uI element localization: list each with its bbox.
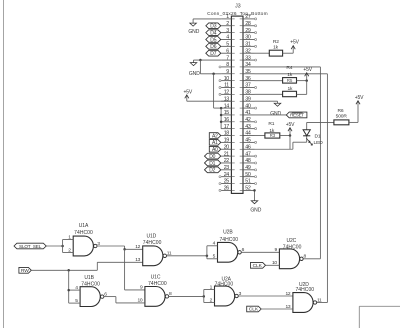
svg-text:16: 16 <box>224 117 230 123</box>
junction R1 +5V <box>289 134 292 137</box>
svg-text:12: 12 <box>285 291 290 297</box>
svg-text:21: 21 <box>224 151 230 157</box>
nand gate U1D <box>143 246 163 266</box>
svg-text:D6: D6 <box>210 44 216 50</box>
svg-text:74HC00: 74HC00 <box>219 237 238 243</box>
svg-text:44: 44 <box>245 131 251 137</box>
svg-text:15: 15 <box>224 110 230 116</box>
svg-text:A1: A1 <box>212 140 218 146</box>
junction U1B pin4 <box>67 289 70 292</box>
svg-text:+5V: +5V <box>290 39 299 45</box>
wire pin52 down <box>254 190 256 200</box>
wire U1A output <box>97 245 125 247</box>
wire U2C out <box>303 258 320 260</box>
svg-text:A2: A2 <box>212 133 218 139</box>
svg-text:CLK: CLK <box>249 307 259 313</box>
svg-text:27: 27 <box>245 14 251 20</box>
ground GND1 top-left <box>192 19 194 23</box>
svg-text:+5V: +5V <box>286 122 295 128</box>
svg-text:24: 24 <box>224 172 230 178</box>
svg-text:LED: LED <box>314 140 324 146</box>
svg-text:U1A: U1A <box>79 223 89 229</box>
junction U1A input <box>61 245 64 248</box>
svg-text:74HC00: 74HC00 <box>74 230 93 236</box>
unconnected pin markers <box>219 66 221 68</box>
wire down to row46 <box>289 136 291 150</box>
svg-text:1k: 1k <box>273 44 279 50</box>
wire vertical to row38 <box>306 81 308 95</box>
svg-text:18: 18 <box>224 131 230 137</box>
junction row16 <box>220 121 223 124</box>
net label SLOT_SEL <box>14 243 46 249</box>
svg-text:43: 43 <box>245 124 251 130</box>
svg-text:R2: R2 <box>273 39 279 45</box>
wire +5V to pin13 <box>187 100 232 102</box>
svg-text:49: 49 <box>245 165 251 171</box>
nand gate U2A <box>215 286 235 306</box>
svg-text:74HC00: 74HC00 <box>283 244 302 250</box>
svg-text:A0: A0 <box>212 147 218 153</box>
power +5V mid <box>306 73 308 81</box>
svg-text:37: 37 <box>245 83 251 89</box>
svg-text:48: 48 <box>245 158 251 164</box>
svg-text:5: 5 <box>226 42 229 48</box>
wire U2A out <box>238 295 293 297</box>
svg-text:D2: D2 <box>209 168 215 174</box>
wire RW down to U1B <box>68 270 70 303</box>
net label RESET <box>286 112 307 118</box>
wire row14 <box>214 107 222 109</box>
nand gate U1C <box>145 287 165 307</box>
svg-text:33: 33 <box>245 55 251 61</box>
svg-text:23: 23 <box>224 165 230 171</box>
net label D1 <box>205 160 221 166</box>
wire U1C out <box>169 295 204 297</box>
svg-text:U1C: U1C <box>151 275 161 281</box>
connector J3 body <box>231 16 243 193</box>
title block corner <box>359 305 400 307</box>
ground GND2 left <box>193 60 195 63</box>
connector J3 pin stubs <box>221 18 231 20</box>
junction RW <box>67 269 70 272</box>
svg-text:U1D: U1D <box>146 233 156 239</box>
svg-text:D1: D1 <box>209 161 215 167</box>
resistor R6 <box>334 120 349 125</box>
svg-text:RESET: RESET <box>290 113 304 118</box>
wire to U1D pin12 <box>125 248 143 250</box>
wire vertical gnd b <box>213 74 215 108</box>
resistor R2 <box>269 50 282 56</box>
net label D0 <box>205 153 221 159</box>
power +5V at R6 <box>357 101 359 123</box>
wire U1D out <box>167 255 207 257</box>
resistor row38 <box>283 91 297 96</box>
svg-text:74HC00: 74HC00 <box>81 282 100 288</box>
svg-text:D0: D0 <box>209 154 215 160</box>
svg-text:19: 19 <box>224 138 230 144</box>
svg-text:J3: J3 <box>235 4 241 10</box>
nand gate U2D <box>293 293 313 313</box>
svg-text:8: 8 <box>226 62 229 68</box>
svg-text:R5: R5 <box>287 78 293 83</box>
net label D4 <box>206 30 221 36</box>
svg-text:9: 9 <box>226 69 229 75</box>
net label A1 <box>209 140 221 146</box>
svg-text:52: 52 <box>245 186 251 192</box>
svg-text:22: 22 <box>224 158 230 164</box>
net label D5 <box>206 37 221 43</box>
schematic frame left border <box>3 0 5 328</box>
connector J3 pin notches <box>231 18 234 20</box>
power +5V at R2 <box>292 46 294 54</box>
wire U2D out <box>317 302 328 304</box>
junction row7 <box>199 59 202 62</box>
svg-text:39: 39 <box>245 96 251 102</box>
svg-text:40: 40 <box>245 103 251 109</box>
svg-text:47: 47 <box>245 151 251 157</box>
svg-text:R6: R6 <box>338 108 344 114</box>
svg-text:GND: GND <box>270 111 281 117</box>
net label D6 <box>206 43 221 49</box>
wire RW line <box>31 269 97 271</box>
net label D2 <box>205 167 221 173</box>
ground GND4 right <box>277 101 279 103</box>
svg-text:14: 14 <box>224 103 230 109</box>
wire row38 right <box>297 93 307 95</box>
wire R2 right <box>283 52 294 54</box>
wire U2A input split <box>203 290 205 303</box>
svg-text:11: 11 <box>224 83 229 89</box>
nand gate U2C <box>279 249 299 269</box>
svg-text:D7: D7 <box>210 51 216 57</box>
svg-text:4: 4 <box>226 35 229 41</box>
wire CLK2 to U2D <box>261 308 293 310</box>
wire pin38 to resistor <box>255 93 283 95</box>
wire pin39 gnd <box>255 100 278 102</box>
nand gate U1B <box>80 287 100 307</box>
net label CLK1 <box>251 262 266 268</box>
junction row14 <box>220 107 223 110</box>
svg-text:U2B: U2B <box>223 229 233 235</box>
svg-text:SLOT_SEL: SLOT_SEL <box>19 244 42 249</box>
power +5V at R1 <box>289 128 291 136</box>
net label CLK2 <box>247 306 262 312</box>
junction U2A input <box>203 295 206 298</box>
wire R5 right <box>297 80 307 82</box>
wire pin32 to R2 <box>255 52 270 54</box>
wire pin46 <box>255 148 293 150</box>
wire RW up to U1D pin13 <box>96 262 98 270</box>
wire R6 right <box>349 121 358 123</box>
wire U1A input split <box>62 240 64 253</box>
svg-text:74HC00: 74HC00 <box>295 287 314 293</box>
wire pin41 reset <box>255 114 287 116</box>
wire vertical gnd c <box>220 108 222 129</box>
junction U2B input <box>206 255 209 257</box>
svg-text:51: 51 <box>245 179 251 185</box>
svg-text:12: 12 <box>135 244 140 250</box>
svg-text:D4: D4 <box>210 30 216 36</box>
wire U1B out step <box>104 296 116 298</box>
svg-text:500R: 500R <box>336 114 348 120</box>
svg-text:1k: 1k <box>287 72 293 78</box>
svg-text:GND: GND <box>188 29 199 35</box>
svg-text:R3: R3 <box>270 133 276 138</box>
power +5V left <box>186 95 188 101</box>
wire CLK1 to U2C <box>266 264 280 266</box>
svg-text:RW: RW <box>21 268 29 274</box>
svg-text:R1: R1 <box>268 121 274 127</box>
svg-text:45: 45 <box>245 138 251 144</box>
junction +5V mid <box>305 79 308 82</box>
svg-text:6: 6 <box>226 48 229 54</box>
svg-text:12: 12 <box>224 90 230 96</box>
svg-text:29: 29 <box>245 28 251 34</box>
wire row34 net <box>255 66 321 68</box>
svg-text:+5V: +5V <box>355 95 364 101</box>
net label RW <box>19 267 31 273</box>
net label A2 <box>209 133 221 139</box>
svg-text:GND: GND <box>250 208 261 214</box>
svg-text:50: 50 <box>245 172 251 178</box>
net label D3 <box>206 23 221 29</box>
svg-text:7: 7 <box>226 55 229 61</box>
svg-text:38: 38 <box>245 90 251 96</box>
svg-text:74HC00: 74HC00 <box>215 281 234 287</box>
wire vertical gnd a <box>199 60 201 74</box>
wire R1 right <box>280 135 290 137</box>
svg-text:13: 13 <box>135 257 140 263</box>
svg-text:10: 10 <box>224 76 230 82</box>
svg-text:46: 46 <box>245 144 251 150</box>
svg-text:CLK: CLK <box>253 263 263 269</box>
svg-text:25: 25 <box>224 179 230 185</box>
ground GND3 bottom <box>251 201 258 204</box>
svg-text:1: 1 <box>226 14 229 20</box>
svg-text:31: 31 <box>245 42 251 48</box>
wire row9 <box>200 73 221 75</box>
nand gate U1A <box>73 236 93 256</box>
svg-text:2: 2 <box>226 21 229 27</box>
junction pin52 <box>253 189 256 192</box>
svg-text:D5: D5 <box>210 37 216 43</box>
svg-text:26: 26 <box>224 186 230 192</box>
svg-text:42: 42 <box>245 117 251 123</box>
svg-text:U1B: U1B <box>84 275 94 281</box>
net label D7 <box>206 50 221 56</box>
svg-text:20: 20 <box>224 144 230 150</box>
wire down to U1C pin9 <box>124 249 126 290</box>
svg-text:+5V: +5V <box>303 67 312 73</box>
wire U2B input split <box>206 246 208 259</box>
svg-text:32: 32 <box>245 48 251 54</box>
svg-text:36: 36 <box>245 76 251 82</box>
resistor R1 <box>265 133 280 138</box>
svg-text:D3: D3 <box>210 24 216 30</box>
nand gate U2B <box>218 242 238 262</box>
wire pin1 to GND <box>193 18 221 20</box>
wire pin44 to R1 <box>255 135 265 137</box>
svg-text:74HC00: 74HC00 <box>148 281 167 287</box>
svg-text:74HC00: 74HC00 <box>143 240 162 246</box>
svg-text:+5V: +5V <box>184 89 193 95</box>
wire pin36 to R5 <box>255 80 283 82</box>
wire U2B out <box>241 251 279 253</box>
svg-text:GND: GND <box>189 71 200 77</box>
svg-text:R4: R4 <box>286 65 292 71</box>
svg-text:17: 17 <box>224 124 230 130</box>
wire led anode to R6 <box>307 121 334 123</box>
net label A0 <box>209 146 221 152</box>
svg-text:41: 41 <box>245 110 251 116</box>
svg-text:30: 30 <box>245 35 251 41</box>
wire led cathode path <box>292 142 294 149</box>
resistor R5 row36 <box>283 78 297 84</box>
junction row9 <box>212 73 215 76</box>
svg-text:35: 35 <box>245 69 251 75</box>
junction row15 <box>220 114 223 117</box>
junction U1A out <box>123 248 126 251</box>
svg-text:34: 34 <box>245 62 251 68</box>
svg-text:U2C: U2C <box>286 238 296 244</box>
svg-text:28: 28 <box>245 21 251 27</box>
wire pin7 left <box>194 59 222 61</box>
LED D1 <box>306 122 308 129</box>
wire row35 net <box>255 73 328 75</box>
wire SLOT_SEL to U1A <box>46 245 62 247</box>
svg-text:D1: D1 <box>315 133 321 139</box>
svg-text:3: 3 <box>226 28 229 34</box>
